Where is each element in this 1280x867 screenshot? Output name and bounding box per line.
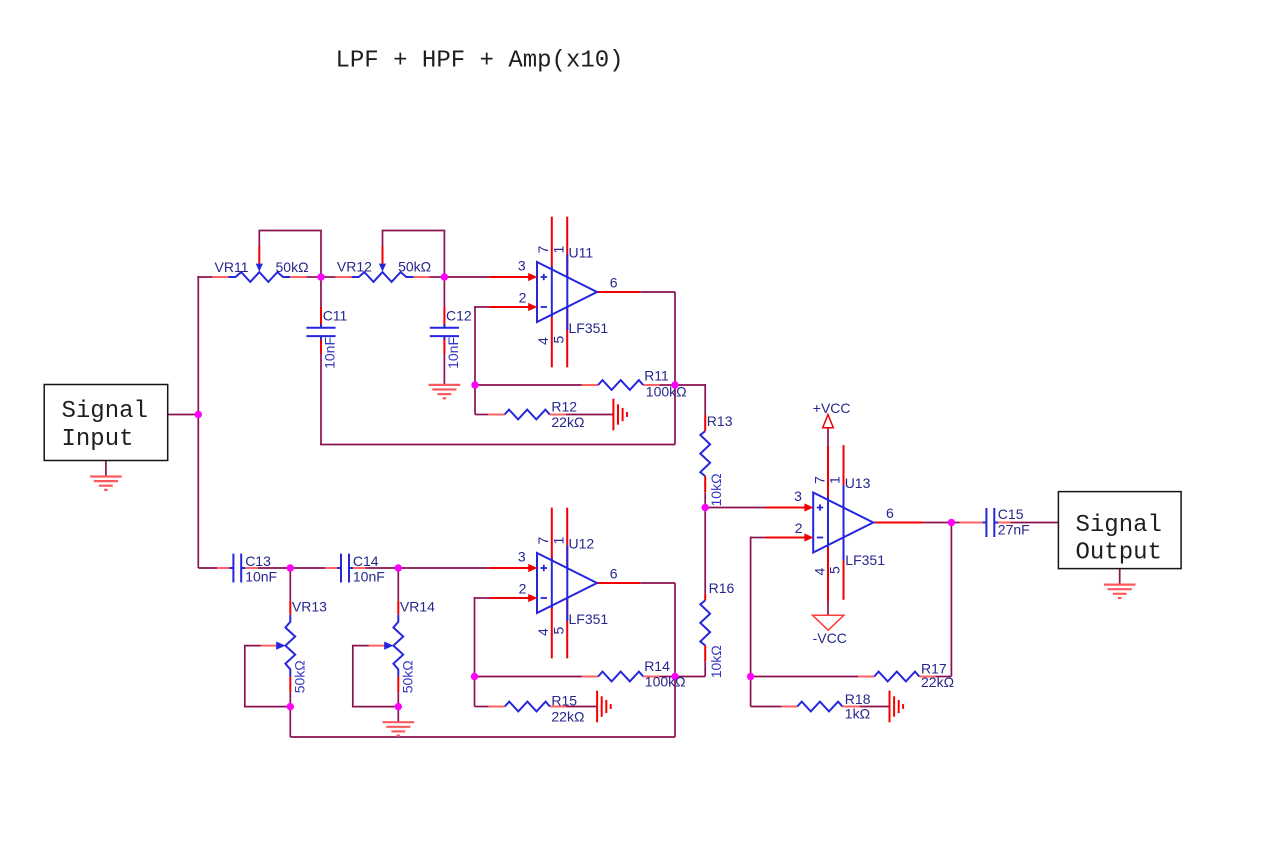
- svg-text:7: 7: [535, 537, 551, 545]
- svg-text:C13: C13: [245, 553, 271, 569]
- wire: R15 right to ground: [566, 706, 597, 708]
- svg-text:1: 1: [550, 246, 566, 254]
- svg-text:50kΩ: 50kΩ: [276, 259, 309, 275]
- red pin U12 output: [597, 582, 640, 584]
- Signal Input box: [44, 385, 168, 461]
- resistor R14 body: [598, 672, 643, 682]
- junction R13/R16/U13 pin3 node: [702, 504, 709, 511]
- U11 pin1/pin5 line: [566, 217, 568, 368]
- Signal Output box: [1058, 492, 1181, 569]
- wire: lower rail horizontal: [290, 736, 675, 738]
- wire: feedback node down to R12 row: [474, 385, 476, 415]
- U11 pin 3 input arrow: [528, 273, 537, 281]
- svg-text:-VCC: -VCC: [813, 630, 847, 646]
- svg-text:27nF: 27nF: [998, 521, 1030, 537]
- wire: Signal Input to input node: [168, 414, 199, 416]
- svg-text:Input: Input: [62, 426, 134, 453]
- -VCC power symbol: [813, 615, 844, 630]
- potentiometer VR12 body: [352, 272, 414, 282]
- wire: C11 bottom to upper rail: [320, 353, 322, 444]
- op-amp U11 body: [537, 255, 597, 331]
- svg-text:LF351: LF351: [569, 611, 609, 627]
- U13 pin 3 input arrow: [804, 503, 813, 511]
- svg-text:+VCC: +VCC: [813, 400, 851, 416]
- wire: R15 left lead: [475, 706, 489, 708]
- wire: VR14 wiper loop: [353, 646, 399, 707]
- svg-text:50kΩ: 50kΩ: [398, 259, 431, 275]
- red pin R16 bottom: [704, 645, 706, 661]
- VR13 wiper arrow: [276, 642, 285, 650]
- svg-text:22kΩ: 22kΩ: [921, 674, 954, 690]
- wire: VR13 node down to lower rail: [289, 707, 291, 737]
- wire: upper rail up to R11 node: [674, 385, 676, 445]
- resistor R18 body: [797, 702, 842, 712]
- pin stub R18 right: [842, 706, 859, 708]
- wire: VR13 top lead: [289, 568, 291, 601]
- wire: U13 pin2 down to R17 node: [750, 537, 752, 707]
- svg-text:LPF + HPF + Amp(x10): LPF + HPF + Amp(x10): [336, 48, 624, 75]
- ground at Signal Input: [90, 475, 122, 477]
- svg-text:R14: R14: [644, 658, 670, 674]
- junction VR11/C11 node: [317, 273, 324, 280]
- pin stub R11 right: [643, 384, 659, 386]
- svg-text:3: 3: [518, 549, 526, 565]
- pin stub VR11 left: [212, 276, 228, 278]
- svg-text:10kΩ: 10kΩ: [708, 473, 724, 506]
- svg-text:4: 4: [535, 337, 551, 345]
- capacitor pin stubs (blue): [320, 324, 322, 328]
- pin stub C14 right: [350, 567, 365, 569]
- pin stub R14 left: [582, 676, 598, 678]
- wire: C13 node to C14: [290, 567, 325, 569]
- wire: U11 pin2 down to feedback node: [474, 306, 476, 385]
- potentiometer VR13 body: [285, 615, 295, 677]
- wire: R12 left lead: [475, 414, 488, 416]
- red pin C11 bottom: [320, 336, 322, 353]
- wire: VR13 bottom lead: [289, 692, 291, 706]
- capacitor C11 plates: [306, 327, 335, 329]
- pin stub R14 right: [643, 676, 659, 678]
- U13 pin7 line to +VCC: [827, 446, 829, 601]
- wire: R13 node down to R16: [704, 508, 706, 594]
- red pin VR13 bottom: [289, 677, 291, 693]
- ground at VR14: [383, 721, 415, 723]
- svg-text:4: 4: [811, 568, 827, 576]
- junction VR12/C12 node: [441, 273, 448, 280]
- svg-text:5: 5: [550, 336, 566, 344]
- wire: C11 top lead: [320, 277, 322, 307]
- ground at R15 (sideways): [596, 691, 598, 723]
- pin stub VR14 wiper: [369, 645, 385, 647]
- svg-text:1: 1: [550, 537, 566, 545]
- junction VR14 bottom node: [395, 703, 402, 710]
- wire: U13 output to output node: [924, 522, 960, 524]
- ground at R12 (sideways): [612, 399, 614, 431]
- svg-text:U11: U11: [569, 245, 594, 261]
- wire: U12 output to right rail: [640, 582, 675, 584]
- pin stub C15 right: [995, 522, 1010, 524]
- svg-text:LF351: LF351: [845, 552, 885, 568]
- U12 pin 2 input arrow: [528, 594, 537, 602]
- wire: U11 output to right rail: [640, 291, 675, 293]
- svg-text:4: 4: [535, 628, 551, 636]
- svg-text:3: 3: [518, 258, 526, 274]
- wire: R18 right to ground: [859, 706, 889, 708]
- wire: VR14 bottom lead: [397, 692, 399, 706]
- wire: R17 node to R17: [751, 676, 858, 678]
- resistor R13 body: [700, 431, 710, 476]
- wire: feedback node to R11: [475, 384, 582, 386]
- red pin VR14 top: [397, 601, 399, 615]
- wire: input vertical rail: [197, 276, 199, 568]
- wire: C14 right lead: [365, 567, 398, 569]
- wire: R11 node to R13 top: [675, 384, 705, 386]
- red pin VR14 bottom: [397, 677, 399, 693]
- ground at R18 (sideways): [889, 691, 891, 723]
- svg-text:2: 2: [519, 290, 527, 306]
- svg-text:100kΩ: 100kΩ: [646, 384, 687, 400]
- pin stub R18 left: [782, 706, 798, 708]
- red pin U13 output: [873, 522, 924, 524]
- wire: R16 bottom lead: [704, 662, 706, 677]
- svg-text:C15: C15: [998, 506, 1024, 522]
- red pin C12 top: [443, 307, 445, 328]
- svg-text:R15: R15: [551, 693, 577, 709]
- svg-text:VR14: VR14: [400, 598, 435, 614]
- svg-text:22kΩ: 22kΩ: [551, 709, 584, 725]
- wire: C12 bottom to ground: [443, 353, 445, 385]
- pin stub R12 right: [550, 414, 566, 416]
- svg-text:6: 6: [886, 505, 894, 521]
- wire: U12 output rail down: [674, 583, 676, 677]
- wire: R13 node to U13 pin3: [705, 507, 765, 509]
- svg-text:C12: C12: [446, 308, 472, 324]
- junction U11 feedback node: [471, 381, 478, 388]
- wire: C13 right lead: [257, 567, 290, 569]
- svg-text:10kΩ: 10kΩ: [708, 645, 724, 678]
- wire: VR12 wiper loop: [383, 231, 445, 278]
- wire: upper rail horizontal: [320, 444, 675, 446]
- capacitor C15 plates: [985, 508, 987, 537]
- pin stub VR12 right: [413, 276, 429, 278]
- pin stub R17 right: [919, 676, 935, 678]
- ground at Signal Output: [1104, 583, 1136, 585]
- svg-text:50kΩ: 50kΩ: [400, 660, 416, 693]
- svg-text:22kΩ: 22kΩ: [551, 414, 584, 430]
- wire: R16 bottom to R14 node: [675, 676, 705, 678]
- wire: +VCC stub: [827, 428, 829, 446]
- red pin C11 top: [320, 307, 322, 328]
- wire: R17 right lead: [936, 676, 952, 678]
- pin stub VR12 left: [336, 276, 352, 278]
- svg-text:5: 5: [550, 627, 566, 635]
- +VCC power symbol: [823, 415, 834, 428]
- wire: U12 pin2 horizontal: [475, 597, 490, 599]
- wire: VR14 top lead: [397, 568, 399, 601]
- red pin U13 pin3: [766, 507, 808, 509]
- U13 pin 2 input arrow: [804, 533, 813, 541]
- resistor R16 body: [700, 600, 710, 645]
- pin stub VR11 right: [290, 276, 306, 278]
- wire: C15 to Signal Output box: [1010, 522, 1058, 524]
- svg-text:2: 2: [795, 520, 803, 536]
- red pin C12 bottom: [443, 336, 445, 353]
- capacitor C14 plates: [340, 554, 342, 583]
- svg-text:5: 5: [827, 566, 843, 574]
- wire: R14 right to node: [659, 676, 675, 678]
- resistor R12 body: [505, 410, 550, 420]
- svg-text:C11: C11: [323, 308, 348, 324]
- svg-text:R12: R12: [551, 398, 577, 414]
- wire: right rail down to R11 node: [674, 292, 676, 385]
- wire: input box ground stub: [105, 461, 107, 477]
- wire: rail to C13: [198, 567, 217, 569]
- wire: VR14 node to ground: [397, 707, 399, 723]
- wire: R18 left lead: [751, 706, 782, 708]
- ground at C12: [429, 384, 461, 386]
- svg-text:VR12: VR12: [337, 259, 372, 275]
- svg-text:VR11: VR11: [215, 259, 249, 275]
- wire: C12 top lead: [443, 277, 445, 307]
- VR11 wiper arrow: [256, 264, 263, 272]
- svg-text:1: 1: [827, 476, 843, 484]
- U12 pin7/pin4 power line: [551, 508, 553, 659]
- junction output node: [948, 519, 955, 526]
- potentiometer VR11 body: [228, 272, 290, 282]
- pin stub R12 left: [488, 414, 504, 416]
- junction VR13 bottom node: [287, 703, 294, 710]
- junction R14/R16 node: [671, 673, 678, 680]
- svg-text:3: 3: [794, 488, 802, 504]
- pin stub R17 left: [858, 676, 874, 678]
- VR14 wiper arrow: [384, 642, 393, 650]
- red pin R13 top: [704, 415, 706, 431]
- U12 pin1/pin5 line: [566, 508, 568, 659]
- svg-text:6: 6: [610, 275, 618, 291]
- wire: R11 right to output node: [659, 384, 675, 386]
- resistor R17 body: [874, 672, 919, 682]
- svg-text:10nF: 10nF: [245, 568, 277, 584]
- svg-text:R16: R16: [709, 580, 735, 596]
- wire: VR11 junction to VR12 left: [321, 276, 336, 278]
- wire: U12 pin2 down to feedback node: [474, 597, 476, 677]
- svg-text:R13: R13: [707, 413, 733, 429]
- svg-text:Signal: Signal: [1076, 512, 1162, 539]
- red pin U13 pin2: [766, 537, 808, 539]
- VR12 wiper arrow: [379, 264, 386, 272]
- red pin U11 pin2: [490, 306, 532, 308]
- wire: R12 right to ground: [566, 414, 614, 416]
- svg-text:VR13: VR13: [292, 598, 327, 614]
- pin stub C14 left: [325, 567, 340, 569]
- svg-text:Output: Output: [1076, 540, 1162, 567]
- svg-text:2: 2: [519, 581, 527, 597]
- pin stub R15 right: [550, 706, 566, 708]
- svg-text:50kΩ: 50kΩ: [292, 660, 308, 693]
- red pin VR13 top: [289, 601, 291, 615]
- svg-text:U13: U13: [845, 475, 871, 491]
- svg-text:1kΩ: 1kΩ: [845, 705, 870, 721]
- wire: VR12 right lead: [429, 276, 444, 278]
- pin stub R11 left: [582, 384, 598, 386]
- resistor R11 body: [598, 380, 643, 390]
- U12 pin 3 input arrow: [528, 564, 537, 572]
- capacitor C13 plates: [232, 554, 234, 583]
- U13 pin1/pin5 line: [843, 445, 845, 600]
- red pin R16 top: [704, 594, 706, 601]
- wire: lower rail up to R14 node: [674, 677, 676, 738]
- wire: R13 bottom lead: [704, 492, 706, 507]
- pin stub C13 left: [217, 567, 232, 569]
- junction input node: [195, 411, 202, 418]
- junction R17/R18 node: [747, 673, 754, 680]
- pin stub C13 right: [242, 567, 257, 569]
- wire: VR11 right lead: [306, 276, 321, 278]
- svg-text:10nF: 10nF: [322, 337, 338, 369]
- junction U12 feedback node: [471, 673, 478, 680]
- svg-text:6: 6: [610, 566, 618, 582]
- svg-text:10nF: 10nF: [445, 337, 461, 369]
- red wire VR12 wiper: [382, 246, 384, 263]
- junction C13/VR13 node: [287, 564, 294, 571]
- wire: output box ground stub: [1119, 569, 1121, 585]
- op-amp U13 body: [813, 485, 873, 561]
- svg-text:R11: R11: [644, 368, 669, 384]
- resistor R15 body: [505, 702, 550, 712]
- red pin R13 bottom: [704, 476, 706, 492]
- wire: C14 node to U12 pin3: [398, 567, 489, 569]
- wire: VR12 junction to U11 pin3: [444, 276, 489, 278]
- wire: VR13 wiper loop: [245, 646, 290, 707]
- red pin U11 pin3: [489, 276, 531, 278]
- wire: -VCC stub: [827, 601, 829, 615]
- svg-text:7: 7: [811, 476, 827, 484]
- svg-text:100kΩ: 100kΩ: [645, 674, 686, 690]
- wire: R17 up to output node: [950, 523, 952, 677]
- wire: lower feedback node to R14: [475, 676, 582, 678]
- pin stub C15 left: [960, 522, 986, 524]
- red pin U11 output: [597, 291, 640, 293]
- svg-text:Signal: Signal: [62, 398, 148, 425]
- red pin U12 pin3: [489, 567, 531, 569]
- svg-text:7: 7: [535, 246, 551, 254]
- junction C14/VR14 node: [395, 564, 402, 571]
- U11 pin 2 input arrow: [528, 303, 537, 311]
- U11 pin7/pin4 power line: [551, 217, 553, 368]
- red wire VR11 wiper: [258, 246, 260, 263]
- svg-text:C14: C14: [353, 553, 379, 569]
- wire: U13 pin2 horizontal: [751, 537, 766, 539]
- wire: R13 top lead: [704, 384, 706, 415]
- pin stub R15 left: [489, 706, 505, 708]
- capacitor C12 plates: [430, 327, 459, 329]
- svg-text:U12: U12: [569, 536, 595, 552]
- wire: VR11 wiper loop: [259, 231, 321, 278]
- junction R11/R13 node: [671, 381, 678, 388]
- wire: feedback node down to R15 row: [474, 677, 476, 707]
- op-amp U12 body: [537, 546, 597, 622]
- svg-text:10nF: 10nF: [353, 568, 385, 584]
- red pin U12 pin2: [490, 597, 532, 599]
- potentiometer VR14 body: [393, 615, 403, 677]
- wire: rail to VR11 left: [197, 276, 212, 278]
- pin stub VR13 wiper: [261, 645, 277, 647]
- svg-text:LF351: LF351: [569, 320, 609, 336]
- wire: U11 pin2 horizontal: [475, 306, 490, 308]
